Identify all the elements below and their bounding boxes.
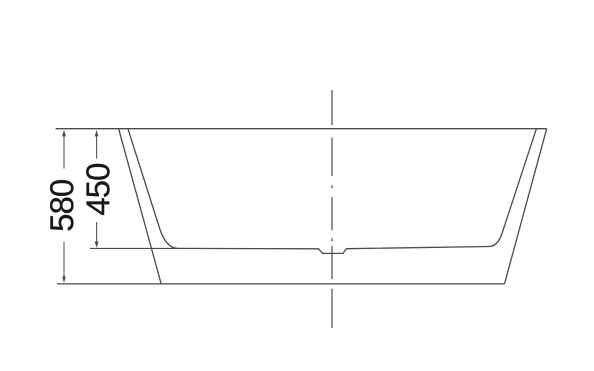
- tub bottom line with left extension: [57, 283, 505, 285]
- dimension 450 top arrow: [95, 130, 99, 136]
- dimension line 450 upper segment: [96, 136, 98, 159]
- dimension line 580 lower segment: [63, 242, 65, 278]
- dimension line 580 upper segment: [63, 136, 65, 169]
- tub top rim line with left extension: [56, 128, 547, 130]
- tub left outer wall: [119, 129, 162, 284]
- dimension text 580: [50, 180, 73, 230]
- dimension text 450: [86, 164, 109, 215]
- vertical centerline dash segments: [331, 90, 333, 328]
- tub right outer wall: [505, 129, 547, 284]
- dimension 580 bottom arrow: [62, 277, 66, 283]
- dimension line 450 lower segment: [96, 222, 98, 242]
- dimension 580 top arrow: [62, 130, 66, 136]
- tub inner shell profile with drain recess: [128, 129, 537, 254]
- dimension 450 bottom arrow: [95, 242, 99, 248]
- inner bottom extension line to 450 dimension: [90, 247, 177, 249]
